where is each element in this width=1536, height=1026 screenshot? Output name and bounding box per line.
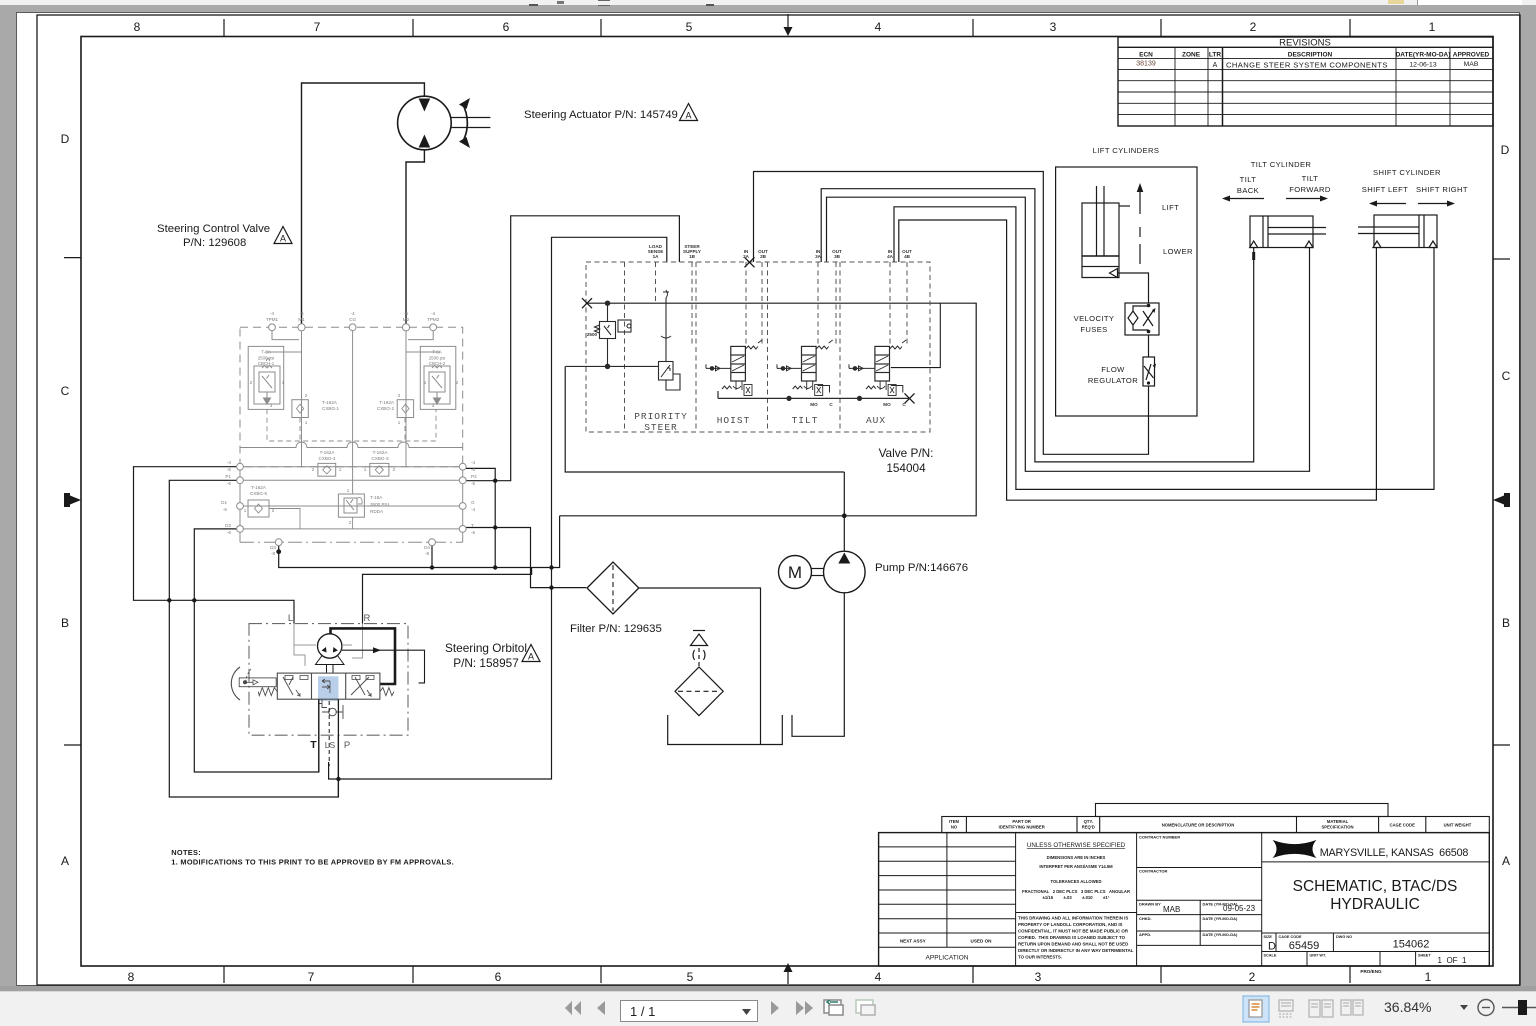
svg-text:D: D [1268,941,1276,953]
svg-text:2: 2 [312,467,315,472]
svg-text:2B: 2B [760,254,767,259]
svg-text:38139: 38139 [1136,61,1156,68]
svg-text:FUSES: FUSES [1080,325,1107,334]
svg-text:2: 2 [1249,970,1256,984]
svg-text:5: 5 [687,970,694,984]
svg-text:PRO/ENG: PRO/ENG [1360,969,1382,974]
svg-text:SCALE: SCALE [1264,954,1277,958]
svg-text:7: 7 [308,970,315,984]
svg-text:DATE(YR-MO-DA): DATE(YR-MO-DA) [1396,52,1451,59]
svg-text:5: 5 [686,20,693,34]
svg-text:LOWER: LOWER [1163,247,1193,256]
svg-text:CONTRACT NUMBER: CONTRACT NUMBER [1139,835,1180,840]
svg-text:DRAWN BY: DRAWN BY [1139,902,1161,907]
svg-text:1. MODIFICATIONS TO THIS PRINT: 1. MODIFICATIONS TO THIS PRINT TO BE APP… [171,858,454,867]
svg-text:-6: -6 [223,507,228,512]
svg-text:T-162A: T-162A [320,450,336,455]
svg-text:P1: P1 [225,474,231,479]
svg-text:CONFIDENTIAL. IT MUST NOT BE M: CONFIDENTIAL. IT MUST NOT BE MADE PUBLIC… [1018,929,1129,934]
svg-text:1: 1 [244,508,247,513]
svg-text:DIMENSIONS ARE IN INCHES: DIMENSIONS ARE IN INCHES [1047,855,1106,860]
svg-text:CXBG-1: CXBG-1 [322,406,340,411]
svg-text:3: 3 [270,403,273,408]
svg-text:PART OR: PART OR [1012,819,1031,824]
svg-text:3: 3 [432,403,435,408]
svg-text:P/N: 158957: P/N: 158957 [453,656,519,670]
svg-text:REGULATOR: REGULATOR [1088,376,1138,385]
svg-text:Steering Actuator P/N: 145749: Steering Actuator P/N: 145749 [524,109,678,121]
svg-text:2500 psi: 2500 psi [258,356,275,361]
svg-text:DATE (YR-MO-DA): DATE (YR-MO-DA) [1203,932,1238,937]
svg-text:CG: CG [349,317,356,322]
svg-text:A: A [1502,854,1510,868]
svg-text:M: M [788,563,802,582]
svg-text:FRACTIONAL 2 DEC PLCS 3 DE: FRACTIONAL 2 DEC PLCS 3 DEC PLCS ANGULAR [1022,889,1130,894]
svg-text:P: P [344,740,350,751]
svg-text:Filter P/N: 129635: Filter P/N: 129635 [570,623,662,635]
svg-text:P2: P2 [471,474,477,479]
svg-text:NEXT ASSY: NEXT ASSY [900,939,926,944]
svg-text:HYDRAULIC: HYDRAULIC [1330,896,1420,913]
svg-text:-6: -6 [471,530,476,535]
svg-text:7: 7 [314,20,321,34]
svg-text:-8: -8 [425,551,430,556]
svg-text:1: 1 [424,380,427,385]
svg-text:154062: 154062 [1393,939,1430,951]
svg-text:3: 3 [1050,20,1057,34]
svg-text:8: 8 [128,970,135,984]
svg-text:2: 2 [272,508,275,513]
svg-text:M1: M1 [298,317,305,322]
svg-text:BACK: BACK [1237,186,1259,195]
svg-text:1: 1 [1429,20,1436,34]
svg-text:TILT: TILT [792,415,819,426]
svg-text:CXBG-5: CXBG-5 [250,491,268,496]
svg-text:NOMENCLATURE OR DESCRIPTION: NOMENCLATURE OR DESCRIPTION [1162,823,1235,828]
svg-text:6: 6 [503,20,510,34]
svg-text:2: 2 [393,467,396,472]
svg-text:D1: D1 [221,500,227,505]
svg-text:D2: D2 [225,523,231,528]
svg-text:8: 8 [134,20,141,34]
svg-text:C: C [61,384,70,398]
svg-text:TO OUR INTERESTS.: TO OUR INTERESTS. [1018,955,1062,960]
svg-text:SHIFT RIGHT: SHIFT RIGHT [1416,185,1468,194]
svg-text:APPROVED: APPROVED [1453,52,1490,59]
svg-text:PRIORITY: PRIORITY [634,411,688,422]
svg-text:TILT: TILT [1240,175,1257,184]
svg-text:APPLICATION: APPLICATION [925,955,968,962]
svg-text:FORWARD: FORWARD [1289,185,1331,194]
svg-text:IDENTIFYING NUMBER: IDENTIFYING NUMBER [999,825,1045,830]
svg-text:MAB: MAB [1464,61,1479,68]
svg-text:6: 6 [495,970,502,984]
svg-text:SPECIFICATION: SPECIFICATION [1321,825,1353,830]
svg-text:CXBG-3: CXBG-3 [371,456,389,461]
svg-text:TOLERANCES ALLOWED: TOLERANCES ALLOWED [1051,879,1102,884]
svg-text:ECN: ECN [1139,52,1153,59]
svg-text:REQ'D: REQ'D [1082,825,1095,830]
svg-text:12-06-13: 12-06-13 [1409,62,1436,69]
svg-text:L: L [288,613,293,624]
svg-text:1: 1 [282,380,285,385]
svg-text:M2: M2 [403,317,410,322]
svg-text:UNIT WT.: UNIT WT. [1310,954,1326,958]
svg-text:MARYSVILLE, KANSAS 66508: MARYSVILLE, KANSAS 66508 [1320,847,1469,859]
svg-text:-6: -6 [471,467,476,472]
svg-text:3A: 3A [815,254,822,259]
svg-text:TPM2: TPM2 [427,317,440,322]
svg-text:CBCH-1: CBCH-1 [258,361,275,366]
svg-text:NOTES:: NOTES: [171,848,201,857]
svg-text:RDDA: RDDA [370,509,384,514]
svg-text:TILT: TILT [1302,174,1319,183]
svg-text:1: 1 [339,467,342,472]
svg-text:Steering Orbitol: Steering Orbitol [445,641,527,655]
svg-text:-4: -4 [270,311,275,316]
svg-text:USED ON: USED ON [971,939,993,944]
svg-text:B: B [1502,616,1510,630]
svg-text:AUX: AUX [866,415,886,426]
svg-text:±1/16 ±.03 ±.0: ±1/16 ±.03 ±.010 ±1° [1043,895,1110,900]
svg-text:D3: D3 [270,545,276,550]
svg-text:A: A [1213,62,1218,69]
svg-text:TILT CYLINDER: TILT CYLINDER [1251,160,1312,169]
svg-text:-4: -4 [471,460,476,465]
svg-text:CONTRACTOR: CONTRACTOR [1139,869,1167,874]
svg-text:1A: 1A [653,254,660,259]
svg-text:DIRECTLY OR INDIRECTLY IN ANY: DIRECTLY OR INDIRECTLY IN ANY WAY DETRIM… [1018,948,1134,953]
svg-text:SHEET: SHEET [1418,954,1431,958]
svg-text:QTY.: QTY. [1084,819,1093,824]
svg-text:TPM1: TPM1 [266,317,279,322]
svg-text:-4: -4 [471,507,476,512]
svg-text:C: C [1502,369,1511,383]
svg-text:G: G [471,500,475,505]
svg-text:1: 1 [305,420,308,425]
svg-text:154004: 154004 [886,461,926,475]
svg-text:THIS DRAWING AND ALL INFORMATI: THIS DRAWING AND ALL INFORMATION THEREIN… [1018,916,1128,921]
svg-text:1: 1 [347,488,350,493]
svg-text:PROPERTY OF LANDOLL CORPORATIO: PROPERTY OF LANDOLL CORPORATION, AND IS [1018,922,1123,927]
svg-text:D: D [1501,143,1510,157]
svg-text:CHKD.: CHKD. [1139,916,1152,921]
svg-text:2: 2 [349,520,352,525]
svg-text:1 OF 1: 1 OF 1 [1438,956,1467,965]
svg-text:1: 1 [364,467,367,472]
svg-text:-6: -6 [471,481,476,486]
svg-text:3500 PSI: 3500 PSI [370,502,389,507]
svg-text:CAGE CODE: CAGE CODE [1279,935,1302,939]
svg-text:UNIT WEIGHT: UNIT WEIGHT [1444,823,1472,828]
svg-text:C: C [829,402,833,407]
svg-text:DESCRIPTION: DESCRIPTION [1288,52,1333,59]
svg-text:2: 2 [456,380,459,385]
svg-text:-4: -4 [351,311,356,316]
svg-text:DATE (YR-MO-DA): DATE (YR-MO-DA) [1203,916,1238,921]
svg-text:R: R [363,613,370,624]
svg-text:LIFT CYLINDERS: LIFT CYLINDERS [1093,146,1160,155]
svg-text:MAB: MAB [1163,905,1180,914]
svg-text:-6: -6 [227,481,232,486]
svg-text:09-05-23: 09-05-23 [1223,904,1256,913]
svg-text:SCHEMATIC, BTAC/DS: SCHEMATIC, BTAC/DS [1293,878,1458,895]
svg-text:T-6A: T-6A [432,350,441,355]
svg-text:1: 1 [398,420,401,425]
svg-text:3: 3 [1035,970,1042,984]
svg-text:1B: 1B [689,254,696,259]
svg-text:4: 4 [875,970,882,984]
svg-text:SHIFT CYLINDER: SHIFT CYLINDER [1373,168,1441,177]
svg-text:DWG NO: DWG NO [1336,935,1352,939]
svg-text:MO: MO [810,402,818,407]
svg-text:T-6A: T-6A [261,350,270,355]
svg-text:Valve P/N:: Valve P/N: [879,446,934,460]
svg-text:B: B [61,616,69,630]
svg-text:INTERPRET PER ANSI/ASME Y14.5M: INTERPRET PER ANSI/ASME Y14.5M [1039,864,1113,869]
svg-text:VELOCITY: VELOCITY [1074,314,1115,323]
svg-text:-8: -8 [271,551,276,556]
svg-text:CXBG-2: CXBG-2 [377,406,395,411]
svg-text:FLOW: FLOW [1101,365,1125,374]
svg-text:A: A [280,234,286,244]
svg-text:A: A [528,652,534,662]
svg-text:LTR: LTR [1209,52,1221,59]
svg-text:D: D [61,132,70,146]
svg-text:NO: NO [951,825,958,830]
svg-text:HOIST: HOIST [717,415,751,426]
svg-text:T: T [310,739,317,751]
svg-text:ZONE: ZONE [1182,52,1201,59]
svg-text:STEER: STEER [644,422,678,433]
svg-text:CAGE CODE: CAGE CODE [1390,823,1416,828]
svg-text:2500: 2500 [587,332,598,337]
svg-text:-6: -6 [227,467,232,472]
svg-text:SHIFT LEFT: SHIFT LEFT [1362,185,1408,194]
svg-text:CBCH-2: CBCH-2 [429,361,446,366]
svg-text:T: T [471,523,474,528]
svg-text:D4: D4 [424,545,430,550]
svg-text:P/N: 129608: P/N: 129608 [183,237,246,249]
svg-text:ITEM: ITEM [949,819,960,824]
svg-text:-6: -6 [404,311,409,316]
svg-text:Pump P/N:146676: Pump P/N:146676 [875,562,968,574]
svg-text:2: 2 [1250,20,1257,34]
svg-text:T-18A: T-18A [370,495,383,500]
svg-text:MO: MO [883,402,891,407]
svg-text:Steering Control Valve: Steering Control Valve [157,223,270,235]
svg-text:2: 2 [250,380,253,385]
svg-text:T-162A: T-162A [322,400,338,405]
svg-text:MATERIAL: MATERIAL [1327,819,1349,824]
svg-text:-4: -4 [431,311,436,316]
svg-text:LS: LS [325,740,336,750]
svg-text:-6: -6 [299,311,304,316]
svg-text:T-162A: T-162A [379,400,395,405]
svg-text:2500 psi: 2500 psi [429,356,446,361]
svg-text:LIFT: LIFT [1162,203,1179,212]
svg-text:REVISIONS: REVISIONS [1279,38,1331,49]
svg-text:T-162A: T-162A [251,485,267,490]
svg-text:4: 4 [875,20,882,34]
svg-text:A: A [685,111,691,121]
svg-text:65459: 65459 [1289,940,1320,952]
svg-text:CXBG-4: CXBG-4 [318,456,336,461]
svg-text:2: 2 [398,393,401,398]
svg-text:-6: -6 [227,530,232,535]
svg-text:2A: 2A [743,254,750,259]
svg-text:2: 2 [305,393,308,398]
svg-text:4A: 4A [887,254,894,259]
svg-text:APPD.: APPD. [1139,932,1151,937]
svg-text:UNLESS OTHERWISE SPECIFIED: UNLESS OTHERWISE SPECIFIED [1027,842,1126,849]
svg-text:1: 1 [1425,970,1432,984]
svg-text:COPIED. THIS DRAWING IS LOANE: COPIED. THIS DRAWING IS LOANED SUBJECT T… [1018,935,1126,940]
svg-text:4B: 4B [904,254,911,259]
svg-text:RETURN UPON DEMAND AND SHALL N: RETURN UPON DEMAND AND SHALL NOT BE USED [1018,942,1128,947]
svg-text:A: A [61,854,69,868]
svg-text:CHANGE STEER SYSTEM COMPONENTS: CHANGE STEER SYSTEM COMPONENTS [1226,61,1388,70]
svg-text:-4: -4 [227,460,232,465]
svg-text:3B: 3B [834,254,841,259]
svg-text:T-162A: T-162A [373,450,389,455]
svg-text:SIZE: SIZE [1264,935,1273,939]
